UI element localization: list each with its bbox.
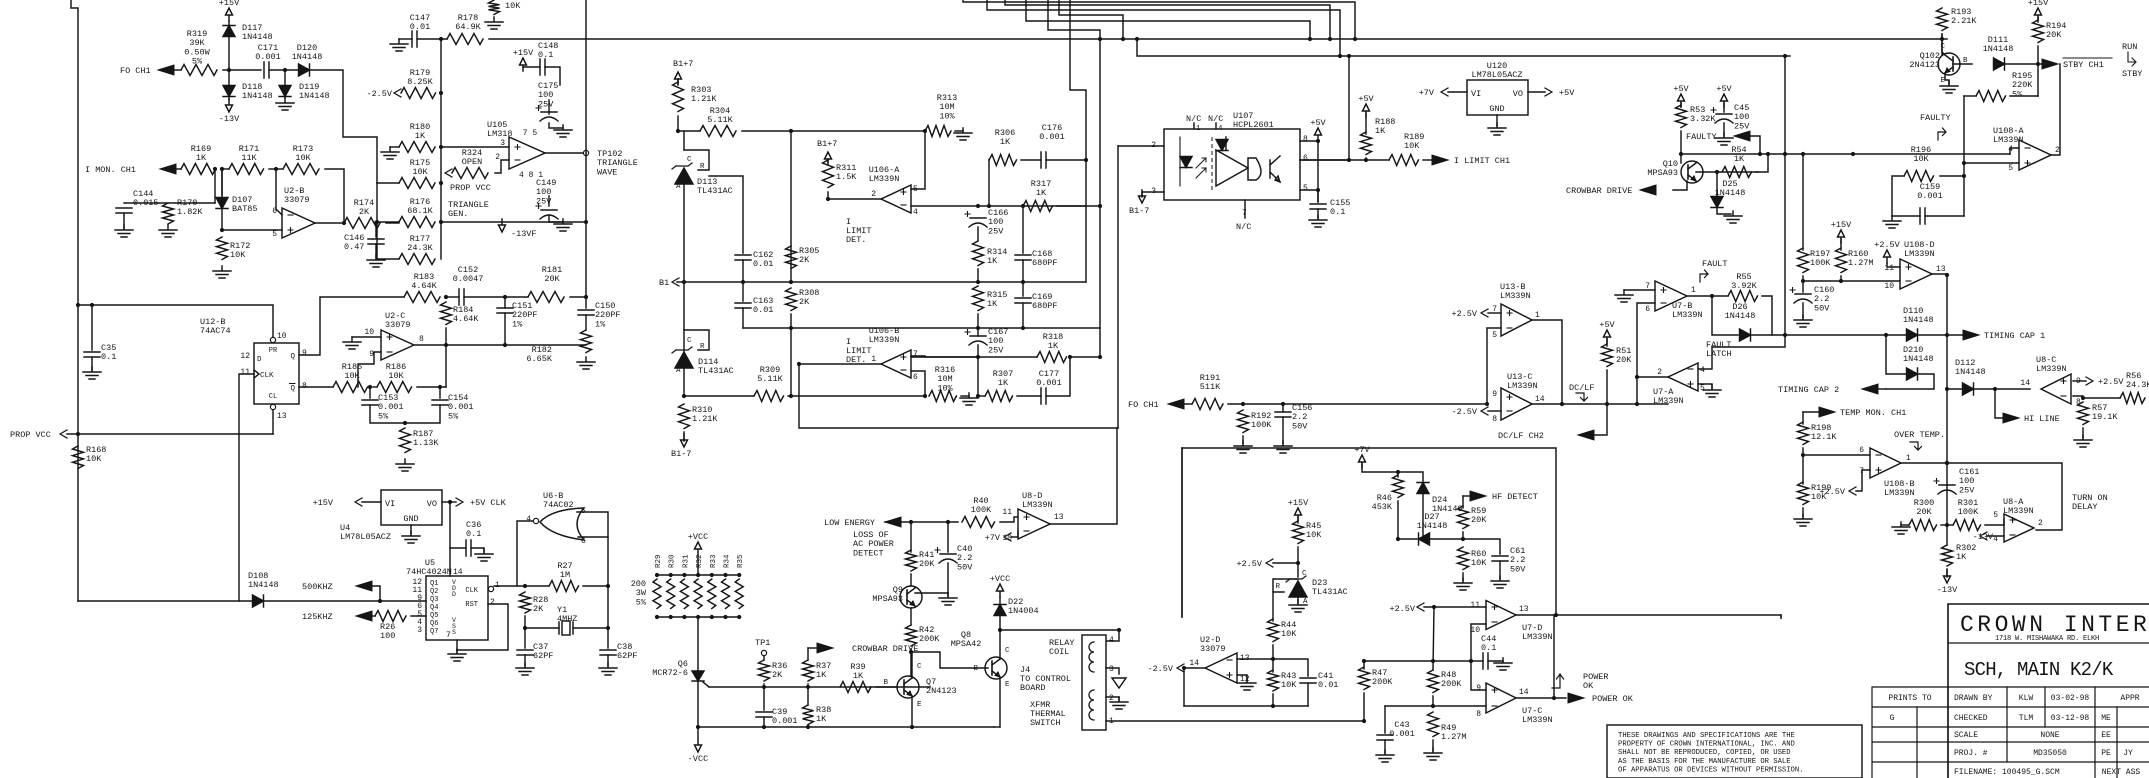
svg-text:DETECT: DETECT xyxy=(853,548,884,558)
svg-text:Q4: Q4 xyxy=(430,604,438,612)
junction C147 R178 xyxy=(439,37,443,41)
svg-text:RST: RST xyxy=(465,601,478,609)
resistor R313 xyxy=(925,126,951,137)
svg-text:20K: 20K xyxy=(919,559,935,569)
capacitor C160 xyxy=(1794,294,1812,303)
svg-text:33079: 33079 xyxy=(1200,644,1226,654)
ground R187 xyxy=(396,459,414,471)
wire C37 bot xyxy=(524,655,526,666)
svg-text:0.01: 0.01 xyxy=(753,305,773,315)
svg-text:AS THE BASIS FOR THE MANUFACTU: AS THE BASIS FOR THE MANUFACTURE OR SALE xyxy=(1618,758,1791,766)
resistor R182 xyxy=(581,330,592,352)
svg-text:NONE: NONE xyxy=(2040,731,2059,740)
wire pin5 up xyxy=(911,131,925,189)
junction c144 imon xyxy=(213,167,217,171)
svg-text:10K: 10K xyxy=(1404,141,1420,151)
wire R42 to Q7c xyxy=(910,649,912,676)
junction U2D out xyxy=(1182,666,1186,670)
wire R317 right xyxy=(1057,205,1100,207)
wire R174 to C146 node xyxy=(386,222,399,224)
wire R181 to rail590 xyxy=(570,296,586,298)
op-amp U106-B xyxy=(881,350,911,378)
junction faulty r197 xyxy=(1801,152,1805,156)
junction tod x1947 xyxy=(1945,461,1949,465)
wire Q9 base to C40 xyxy=(915,592,948,594)
ground C175 xyxy=(554,125,572,137)
wire U7B out xyxy=(1687,295,1728,297)
capacitor C159 xyxy=(1920,208,1925,224)
svg-text:HI LINE: HI LINE xyxy=(2024,414,2060,424)
wire C40 col xyxy=(947,522,949,552)
bus y56 xyxy=(1340,55,1790,57)
resistor R33 xyxy=(708,579,716,609)
diode D110 xyxy=(1907,329,1918,341)
capacitor C153 xyxy=(362,400,378,405)
wire pin2 line xyxy=(1118,145,1164,147)
title block outer xyxy=(1948,604,2149,778)
capacitor C169 xyxy=(1015,298,1031,303)
svg-text:R33: R33 xyxy=(710,554,718,568)
resistor R32 xyxy=(694,579,702,609)
junction R47 J4wire xyxy=(1362,719,1366,723)
wire D210 right xyxy=(1886,374,1934,389)
resistor R198 xyxy=(1798,422,1809,444)
svg-text:-2.5V: -2.5V xyxy=(1147,664,1173,674)
svg-text:0.001: 0.001 xyxy=(772,716,798,726)
resistor R197 xyxy=(1798,248,1809,273)
svg-text:1.21K: 1.21K xyxy=(692,414,718,424)
wire R40 to U8D xyxy=(1000,517,1018,522)
wire to R181 xyxy=(505,296,528,298)
wire U7A out xyxy=(1638,376,1668,378)
svg-text:B: B xyxy=(883,679,888,687)
wire dclf ch2 drop xyxy=(1592,404,1607,435)
svg-text:20K: 20K xyxy=(2046,30,2062,40)
wire x377 to R176 xyxy=(377,221,399,223)
thyristor Q6 MCR72-6 xyxy=(692,671,704,681)
wire Q102 collector xyxy=(1942,34,1945,55)
svg-text:2: 2 xyxy=(2055,146,2060,155)
svg-text:LM339N: LM339N xyxy=(869,335,900,345)
svg-text:2K: 2K xyxy=(799,255,810,265)
junction y39 nestB xyxy=(1338,54,1342,58)
svg-text:PE: PE xyxy=(2101,749,2111,758)
diode D26 xyxy=(1740,329,1751,341)
wire U108D out xyxy=(1932,273,1947,275)
diode D210 xyxy=(1907,368,1918,380)
open arrow +2.5 U108B xyxy=(1849,487,1856,495)
wire U7B gnd to pin7 xyxy=(1624,289,1655,291)
transistor Q7 2N4123 xyxy=(897,676,919,698)
wire U4 out xyxy=(442,501,456,503)
svg-text:LM339N: LM339N xyxy=(1022,500,1053,510)
wire minus in U2B xyxy=(276,169,282,215)
wire Q7c to Q8 base xyxy=(911,652,988,668)
resistor R29 xyxy=(653,579,661,609)
power +2.5V U108D xyxy=(1884,250,1891,263)
capacitor C146 xyxy=(368,239,384,244)
wire C35 bot xyxy=(91,357,93,370)
wire C162 link xyxy=(709,176,743,253)
wire mid row y661 xyxy=(1364,660,1471,662)
svg-text:33079: 33079 xyxy=(385,320,411,330)
wire R51 bot xyxy=(1606,370,1608,404)
capacitor C45 xyxy=(1715,114,1733,123)
resistor R307 xyxy=(985,391,1012,402)
svg-text:2: 2 xyxy=(1657,368,1662,377)
junction R176 rail xyxy=(439,220,443,224)
svg-text:200K: 200K xyxy=(1372,677,1393,687)
resistor R160 xyxy=(1836,248,1847,273)
open arrow +2.5V U8C xyxy=(2086,377,2093,385)
wire C35 hang xyxy=(91,305,93,350)
wire C149 top xyxy=(548,196,550,206)
svg-text:2K: 2K xyxy=(772,670,783,680)
wire R314 bot xyxy=(977,269,979,282)
power -13VF arrow xyxy=(499,219,506,232)
junction U4 out xyxy=(448,500,452,504)
wire bank bottom rail xyxy=(657,616,739,618)
resistor R169 xyxy=(181,164,215,175)
svg-text:R34: R34 xyxy=(724,554,732,568)
op-amp U108-B xyxy=(1870,448,1901,478)
junction 500k xyxy=(378,599,382,603)
svg-text:6: 6 xyxy=(581,537,586,546)
junction -VCC bank xyxy=(696,725,700,729)
svg-text:+5V: +5V xyxy=(1310,118,1326,128)
op-amp U7-D xyxy=(1486,601,1516,630)
svg-text:Q3: Q3 xyxy=(430,596,438,604)
resistor R37 xyxy=(803,660,814,681)
svg-text:6: 6 xyxy=(1303,154,1308,163)
wire U5 gnd xyxy=(456,640,458,652)
svg-text:0.015: 0.015 xyxy=(133,198,159,208)
junction pin8 +5v xyxy=(1316,139,1320,143)
svg-text:+5V: +5V xyxy=(1716,84,1732,94)
wire gnd to R180 xyxy=(390,146,399,148)
wire R315 bot xyxy=(977,314,979,328)
resistor R178 xyxy=(447,34,483,45)
svg-text:C: C xyxy=(1940,43,1945,51)
wire timing row right xyxy=(1785,334,1906,336)
svg-text:+2.5V: +2.5V xyxy=(1236,559,1262,569)
resistor R41 xyxy=(906,550,917,571)
wire U13B out loop xyxy=(1532,320,1562,404)
svg-text:10K: 10K xyxy=(230,250,246,260)
capacitor C44 xyxy=(1483,653,1488,669)
wire C61 bot xyxy=(1499,561,1501,579)
ground C37 xyxy=(516,663,534,675)
bus x1349 down xyxy=(1348,56,1350,160)
wire D27 row xyxy=(1398,538,1417,540)
wire C43 col xyxy=(1384,706,1386,733)
bus y56 step xyxy=(1137,39,1340,56)
svg-text:5: 5 xyxy=(272,230,277,239)
resistor R53 xyxy=(1676,105,1687,128)
op-amp U2-B xyxy=(282,208,315,238)
wire U2C out row xyxy=(415,344,586,346)
svg-text:D: D xyxy=(257,356,262,364)
svg-text:1N4148: 1N4148 xyxy=(1725,311,1756,321)
svg-text:25V: 25V xyxy=(988,226,1004,236)
junction y206 C168 xyxy=(1021,204,1025,208)
wire to arrow tc1 xyxy=(1947,334,1963,336)
junction pin6 R316 xyxy=(923,394,927,398)
junction R311 U106A out xyxy=(826,197,830,201)
svg-text:0.1: 0.1 xyxy=(1481,643,1496,653)
wire C151 leads xyxy=(504,297,506,308)
wire C149 bot xyxy=(548,215,550,222)
wire R57 bot xyxy=(2082,428,2084,438)
junction y357 C167 xyxy=(976,355,980,359)
svg-text:I MON. CH1: I MON. CH1 xyxy=(85,165,136,175)
arrow HI LINE xyxy=(2003,413,2019,423)
svg-text:TL431AC: TL431AC xyxy=(698,366,734,376)
svg-text:0.001: 0.001 xyxy=(1039,132,1065,142)
svg-text:5: 5 xyxy=(1993,511,1998,520)
junction U106B out xyxy=(797,362,801,366)
svg-text:+VCC: +VCC xyxy=(688,532,708,542)
svg-text:G: G xyxy=(1890,714,1895,723)
svg-text:1K: 1K xyxy=(853,671,864,681)
power B1+7 R303 xyxy=(675,72,682,85)
junction y39 nestC xyxy=(1308,37,1312,41)
junction R309 col789 xyxy=(789,394,793,398)
svg-text:+5V: +5V xyxy=(1673,84,1689,94)
svg-text:E: E xyxy=(917,701,922,709)
svg-text:R35: R35 xyxy=(737,554,745,568)
wire D107 to plus xyxy=(222,209,282,230)
resistor R304 xyxy=(700,126,736,137)
open arrow +7V U120 xyxy=(1441,88,1448,96)
notice box xyxy=(1607,725,1862,778)
svg-text:125KHZ: 125KHZ xyxy=(302,612,333,622)
wire C160 bot xyxy=(1802,303,1804,318)
junction D107 R172 xyxy=(220,228,224,232)
junction R188 row xyxy=(1364,158,1368,162)
svg-text:1N4148: 1N4148 xyxy=(1983,44,2014,54)
power +15V top-left xyxy=(226,8,233,21)
svg-text:TIMING CAP 1: TIMING CAP 1 xyxy=(1984,331,2045,341)
wire R307 to C177 xyxy=(1017,395,1041,397)
ground C35 xyxy=(83,367,101,379)
resistor R40 xyxy=(962,517,994,528)
arrow DC/LF CH2 xyxy=(1578,430,1594,440)
wire J4 pin3 xyxy=(1106,668,1119,674)
svg-text:1N4148: 1N4148 xyxy=(242,32,273,42)
wire R309 row xyxy=(684,395,754,397)
open flag pin3 xyxy=(1112,678,1126,688)
junction C35 xyxy=(90,303,94,307)
svg-text:2: 2 xyxy=(2038,519,2043,528)
svg-text:1K: 1K xyxy=(816,714,827,724)
svg-text:COIL: COIL xyxy=(1049,647,1069,657)
wire R185 R186 xyxy=(373,386,377,388)
resistor R188 xyxy=(1361,132,1372,155)
resistor R45 xyxy=(1293,521,1304,543)
svg-text:1N4148: 1N4148 xyxy=(1417,521,1448,531)
op-amp U2-C xyxy=(381,330,414,360)
power +5V C45 xyxy=(1721,94,1728,107)
junction y39 nestE xyxy=(1121,37,1125,41)
svg-text:VO: VO xyxy=(427,499,437,509)
resistor 10K pullup top xyxy=(489,0,500,14)
junction R27 x608 xyxy=(606,584,610,588)
glyph overtemp xyxy=(1910,442,1922,450)
arrow 125KHZ xyxy=(356,611,372,621)
ground R316 xyxy=(960,393,978,405)
junction R179 rail xyxy=(439,91,443,95)
wire U106B out xyxy=(799,363,881,365)
wire C169 bot xyxy=(1022,303,1024,328)
wire Q10 emitter xyxy=(1673,181,1687,190)
wire U7D minus loop xyxy=(1471,624,1486,690)
junction R30 bot xyxy=(669,615,673,619)
svg-text:LOW ENERGY: LOW ENERGY xyxy=(824,518,875,528)
wire R37 to row xyxy=(807,684,809,705)
svg-text:FAULTY: FAULTY xyxy=(1920,113,1951,123)
wire Q102 base xyxy=(1953,63,1972,65)
wire rail to PR xyxy=(78,305,273,337)
resistor R309 xyxy=(754,391,784,402)
svg-text:19.1K: 19.1K xyxy=(2092,412,2118,422)
svg-text:24.3K: 24.3K xyxy=(407,243,433,253)
wire y206 row xyxy=(978,205,1086,207)
svg-text:1N4148: 1N4148 xyxy=(292,52,323,62)
transistor Q102 2N4123 xyxy=(1938,53,1960,75)
opto transistor xyxy=(1270,156,1280,182)
capacitor C166 xyxy=(969,218,987,227)
resistor R34 xyxy=(722,579,730,609)
svg-text:1N4148: 1N4148 xyxy=(299,91,330,101)
svg-text:Q1: Q1 xyxy=(430,580,438,588)
wire TP1 down xyxy=(763,656,765,660)
wire imon to R169 xyxy=(176,168,181,170)
resistor R306 xyxy=(989,155,1016,166)
power +5V R53 xyxy=(1678,94,1685,107)
wire Q7 emitter xyxy=(911,696,913,727)
svg-text:0.0047: 0.0047 xyxy=(453,274,484,284)
wire U120 gnd xyxy=(1496,115,1498,126)
svg-text:10K: 10K xyxy=(1306,530,1322,540)
wire U2D fb xyxy=(1184,705,1308,707)
junction C177 y357 xyxy=(1068,355,1072,359)
resistor R26 xyxy=(375,611,406,622)
svg-text:14: 14 xyxy=(1535,395,1545,404)
junction B1 C169 xyxy=(1021,280,1025,284)
svg-text:7: 7 xyxy=(1645,282,1650,291)
svg-text:TLM: TLM xyxy=(2019,714,2034,723)
svg-text:POWER OK: POWER OK xyxy=(1592,694,1634,704)
svg-text:PR: PR xyxy=(269,347,278,355)
junction R303 R304 xyxy=(676,129,680,133)
wire D114 anode xyxy=(683,368,685,396)
ground U2D xyxy=(1238,678,1256,690)
svg-text:Q6: Q6 xyxy=(430,620,438,628)
svg-text:CLK: CLK xyxy=(260,372,274,380)
svg-text:5: 5 xyxy=(1700,384,1705,393)
svg-text:FO CH1: FO CH1 xyxy=(120,66,151,76)
open arrow -2.5V xyxy=(394,89,401,97)
ground Q102 xyxy=(1940,81,1958,93)
wire R196 left xyxy=(1892,176,1904,216)
ground R170 xyxy=(159,225,177,237)
svg-text:1N4148: 1N4148 xyxy=(242,91,273,101)
capacitor C152 xyxy=(459,289,464,305)
ground D23 xyxy=(1289,600,1307,612)
wire U105 out to TP102 xyxy=(545,152,583,154)
resistor R303 xyxy=(673,82,684,111)
junction R183 R184 xyxy=(444,295,448,299)
power -13V R302 xyxy=(1944,570,1951,583)
junction timing cap1 xyxy=(1945,333,1949,337)
arrow CROWBAR DRIVE xyxy=(817,643,833,653)
svg-text:10: 10 xyxy=(277,332,287,341)
wire D22 bot xyxy=(999,616,1001,630)
ground 10K top xyxy=(485,17,503,29)
junction timing x1785 xyxy=(1783,333,1787,337)
junction B1 R305 xyxy=(789,280,793,284)
svg-text:-2.5V: -2.5V xyxy=(1451,407,1477,417)
wire R184 down xyxy=(445,328,447,345)
bracket D114 xyxy=(684,330,709,350)
junction R46 D24 top xyxy=(1396,470,1400,474)
junction D210 left xyxy=(1884,333,1888,337)
svg-text:11: 11 xyxy=(1470,601,1480,610)
power +VCC D22 xyxy=(997,584,1004,597)
svg-text:1.21K: 1.21K xyxy=(691,94,717,104)
wire +2.5 to pin11 xyxy=(1887,263,1900,267)
svg-text:1K: 1K xyxy=(196,153,207,163)
resistor R36 xyxy=(759,660,770,681)
svg-text:10: 10 xyxy=(1884,282,1894,291)
svg-text:+VCC: +VCC xyxy=(990,574,1010,584)
wire R303 to node xyxy=(677,116,679,131)
ground R57 xyxy=(2074,435,2092,447)
capacitor C163 xyxy=(735,303,751,308)
svg-text:B: B xyxy=(973,665,978,673)
svg-text:4: 4 xyxy=(913,208,918,217)
svg-text:LM339N: LM339N xyxy=(1507,381,1538,391)
ground R172 xyxy=(213,266,231,278)
ground C144 xyxy=(115,225,133,237)
svg-text:64.9K: 64.9K xyxy=(455,22,481,32)
svg-text:50V: 50V xyxy=(1292,421,1308,431)
junction r196 col xyxy=(1962,174,1966,178)
junction R42 Q7 xyxy=(909,650,913,654)
svg-text:0.001: 0.001 xyxy=(1036,378,1062,388)
transistor Q8 MPSA42 xyxy=(985,657,1007,679)
ground C149 xyxy=(554,219,572,231)
svg-text:20K: 20K xyxy=(544,274,560,284)
wire x1781 down xyxy=(1780,615,1782,618)
junction R171 R173 xyxy=(274,167,278,171)
open arrow +5V U120 xyxy=(1545,88,1552,96)
wire C150 lead xyxy=(585,297,587,308)
resistor R38 xyxy=(803,705,814,725)
wire C45 bot xyxy=(1723,123,1725,136)
svg-text:FO CH1: FO CH1 xyxy=(1128,400,1159,410)
svg-text:TP1: TP1 xyxy=(755,638,770,648)
wire C159 right xyxy=(1925,215,1964,217)
ground R199 xyxy=(1794,514,1812,526)
wire U108D minus row xyxy=(1803,280,1900,282)
svg-text:6: 6 xyxy=(1859,446,1864,455)
wire C167 top xyxy=(977,328,979,336)
wire +2.5 to pin7 xyxy=(1488,312,1501,314)
wire relay feed xyxy=(1000,630,1119,641)
diode D27 xyxy=(1419,533,1430,545)
